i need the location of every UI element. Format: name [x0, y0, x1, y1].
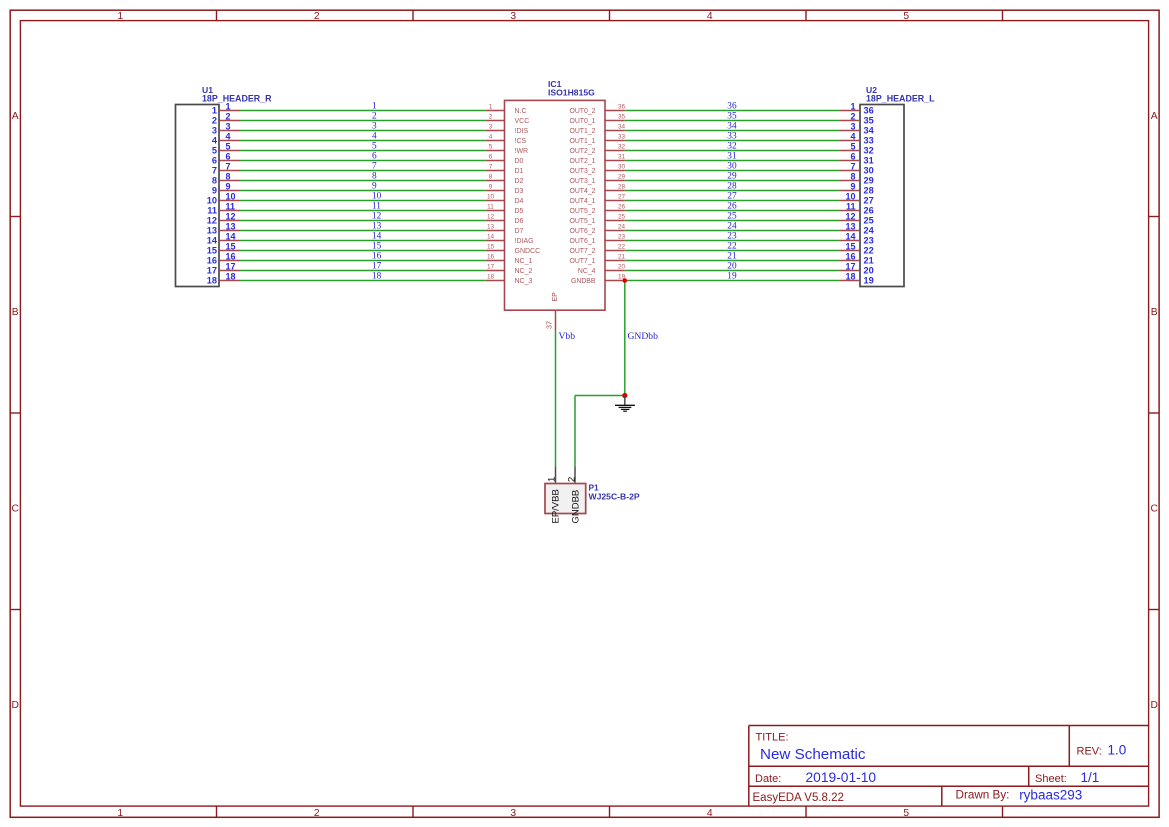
- svg-text:5: 5: [226, 141, 231, 151]
- svg-text:25: 25: [727, 212, 737, 222]
- svg-text:14: 14: [226, 231, 236, 241]
- svg-text:8: 8: [489, 174, 493, 181]
- svg-text:NC_4: NC_4: [578, 268, 596, 275]
- svg-text:5: 5: [212, 146, 217, 156]
- svg-text:8: 8: [226, 171, 231, 181]
- svg-text:EasyEDA V5.8.22: EasyEDA V5.8.22: [753, 792, 844, 804]
- svg-text:5: 5: [372, 142, 377, 152]
- svg-text:1: 1: [117, 11, 123, 22]
- svg-text:OUT2_2: OUT2_2: [569, 148, 595, 155]
- svg-text:37: 37: [545, 321, 554, 329]
- svg-text:!DIAG: !DIAG: [515, 238, 534, 245]
- svg-text:D7: D7: [515, 228, 524, 235]
- svg-text:9: 9: [372, 182, 377, 192]
- svg-text:REV:: REV:: [1077, 745, 1102, 757]
- svg-text:22: 22: [727, 242, 737, 252]
- svg-text:28: 28: [618, 184, 626, 191]
- svg-text:17: 17: [372, 262, 382, 272]
- svg-text:27: 27: [727, 192, 737, 202]
- svg-text:4: 4: [212, 136, 218, 146]
- svg-text:2: 2: [567, 477, 578, 482]
- svg-text:7: 7: [226, 161, 231, 171]
- svg-text:3: 3: [510, 11, 516, 22]
- svg-text:14: 14: [487, 234, 495, 241]
- svg-text:rybaas293: rybaas293: [1019, 788, 1082, 803]
- svg-text:21: 21: [727, 252, 737, 262]
- svg-text:D: D: [11, 700, 18, 711]
- svg-text:21: 21: [618, 254, 626, 261]
- svg-text:29: 29: [618, 174, 626, 181]
- svg-text:3: 3: [212, 126, 217, 136]
- svg-text:18: 18: [845, 271, 855, 281]
- svg-text:24: 24: [864, 226, 875, 236]
- svg-text:17: 17: [207, 266, 217, 276]
- svg-text:4: 4: [707, 11, 713, 22]
- svg-text:33: 33: [864, 136, 874, 146]
- svg-text:10: 10: [226, 191, 236, 201]
- svg-text:9: 9: [212, 186, 217, 196]
- svg-text:1: 1: [546, 477, 557, 482]
- svg-text:10: 10: [487, 194, 495, 201]
- svg-text:35: 35: [864, 116, 874, 126]
- svg-text:15: 15: [372, 242, 382, 252]
- svg-text:ISO1H815G: ISO1H815G: [548, 87, 595, 97]
- svg-text:OUT4_1: OUT4_1: [569, 198, 595, 205]
- svg-text:!WR: !WR: [515, 148, 529, 155]
- svg-text:31: 31: [864, 156, 874, 166]
- svg-text:6: 6: [850, 151, 855, 161]
- svg-text:5: 5: [903, 11, 909, 22]
- svg-text:1/1: 1/1: [1081, 770, 1100, 785]
- svg-text:D0: D0: [515, 158, 524, 165]
- svg-text:OUT5_1: OUT5_1: [569, 218, 595, 225]
- svg-text:1: 1: [489, 104, 493, 111]
- svg-text:26: 26: [864, 206, 874, 216]
- svg-text:29: 29: [727, 172, 737, 182]
- svg-text:17: 17: [487, 264, 495, 271]
- svg-text:2: 2: [850, 111, 855, 121]
- svg-text:19: 19: [864, 276, 874, 286]
- svg-text:30: 30: [618, 164, 626, 171]
- svg-text:4: 4: [489, 134, 493, 141]
- svg-text:32: 32: [618, 144, 626, 151]
- svg-text:7: 7: [212, 166, 217, 176]
- svg-text:OUT2_1: OUT2_1: [569, 158, 595, 165]
- svg-text:VCC: VCC: [515, 118, 530, 125]
- svg-text:OUT7_2: OUT7_2: [569, 248, 595, 255]
- svg-text:EP: EP: [552, 292, 559, 302]
- svg-text:2: 2: [226, 111, 231, 121]
- svg-text:12: 12: [207, 216, 217, 226]
- svg-text:OUT3_1: OUT3_1: [569, 178, 595, 185]
- svg-text:2: 2: [372, 112, 377, 122]
- svg-text:24: 24: [618, 224, 626, 231]
- svg-text:26: 26: [727, 202, 737, 212]
- svg-text:B: B: [1151, 307, 1158, 318]
- svg-text:33: 33: [618, 134, 626, 141]
- svg-text:1: 1: [212, 106, 217, 116]
- svg-text:16: 16: [845, 251, 855, 261]
- svg-text:TITLE:: TITLE:: [756, 732, 789, 744]
- svg-text:11: 11: [846, 201, 856, 211]
- svg-text:2: 2: [489, 114, 493, 121]
- svg-text:6: 6: [226, 151, 231, 161]
- svg-text:16: 16: [226, 251, 236, 261]
- svg-text:OUT0_2: OUT0_2: [569, 108, 595, 115]
- svg-text:2: 2: [212, 116, 217, 126]
- svg-text:GNDbb: GNDbb: [628, 331, 659, 342]
- svg-text:13: 13: [226, 221, 236, 231]
- svg-text:9: 9: [226, 181, 231, 191]
- svg-text:OUT3_2: OUT3_2: [569, 168, 595, 175]
- svg-text:11: 11: [207, 206, 217, 216]
- svg-text:D6: D6: [515, 218, 524, 225]
- svg-text:18: 18: [226, 271, 236, 281]
- svg-text:14: 14: [845, 231, 855, 241]
- svg-text:GNDCC: GNDCC: [515, 248, 541, 255]
- svg-text:!DIS: !DIS: [515, 128, 529, 135]
- svg-text:New Schematic: New Schematic: [760, 746, 866, 763]
- svg-text:10: 10: [207, 196, 217, 206]
- svg-text:OUT0_1: OUT0_1: [569, 118, 595, 125]
- svg-text:1: 1: [850, 101, 855, 111]
- svg-text:10: 10: [372, 192, 382, 202]
- svg-text:12: 12: [226, 211, 236, 221]
- svg-text:18: 18: [207, 276, 217, 286]
- svg-text:1.0: 1.0: [1108, 742, 1127, 757]
- svg-text:5: 5: [850, 141, 855, 151]
- svg-text:27: 27: [618, 194, 626, 201]
- svg-text:28: 28: [727, 182, 737, 192]
- svg-text:11: 11: [372, 202, 381, 212]
- svg-text:14: 14: [372, 232, 382, 242]
- svg-text:33: 33: [727, 132, 737, 142]
- svg-text:36: 36: [618, 104, 626, 111]
- svg-text:36: 36: [864, 106, 874, 116]
- svg-text:29: 29: [864, 176, 874, 186]
- svg-text:OUT6_1: OUT6_1: [569, 238, 595, 245]
- svg-text:10: 10: [845, 191, 855, 201]
- svg-text:22: 22: [864, 246, 874, 256]
- svg-text:35: 35: [727, 112, 737, 122]
- svg-text:D4: D4: [515, 198, 524, 205]
- svg-text:5: 5: [489, 144, 493, 151]
- svg-text:WJ25C-B-2P: WJ25C-B-2P: [589, 492, 640, 502]
- svg-text:D: D: [1150, 700, 1157, 711]
- svg-text:D3: D3: [515, 188, 524, 195]
- svg-text:2019-01-10: 2019-01-10: [806, 770, 877, 785]
- svg-text:15: 15: [487, 244, 495, 251]
- svg-text:6: 6: [372, 152, 377, 162]
- svg-text:8: 8: [212, 176, 217, 186]
- svg-text:13: 13: [487, 224, 495, 231]
- svg-text:5: 5: [903, 808, 909, 819]
- svg-text:34: 34: [864, 126, 875, 136]
- svg-text:15: 15: [845, 241, 855, 251]
- svg-text:23: 23: [618, 234, 626, 241]
- svg-text:19: 19: [727, 272, 737, 282]
- svg-text:3: 3: [372, 122, 377, 132]
- svg-text:16: 16: [207, 256, 217, 266]
- svg-text:34: 34: [618, 124, 626, 131]
- svg-text:4: 4: [226, 131, 231, 141]
- svg-text:32: 32: [727, 142, 737, 152]
- svg-text:14: 14: [207, 236, 218, 246]
- svg-text:13: 13: [207, 226, 217, 236]
- svg-text:!CS: !CS: [515, 138, 527, 145]
- svg-text:OUT1_1: OUT1_1: [569, 138, 595, 145]
- svg-text:18P_HEADER_L: 18P_HEADER_L: [866, 94, 935, 104]
- svg-text:3: 3: [489, 124, 493, 131]
- svg-text:NC_2: NC_2: [515, 268, 533, 275]
- svg-text:12: 12: [372, 212, 382, 222]
- svg-text:23: 23: [727, 232, 737, 242]
- svg-text:11: 11: [226, 201, 236, 211]
- svg-text:B: B: [12, 307, 19, 318]
- svg-text:30: 30: [727, 162, 737, 172]
- svg-text:7: 7: [372, 162, 377, 172]
- svg-text:2: 2: [314, 808, 320, 819]
- svg-text:Vbb: Vbb: [559, 331, 576, 342]
- svg-text:OUT7_1: OUT7_1: [569, 258, 595, 265]
- svg-text:OUT4_2: OUT4_2: [569, 188, 595, 195]
- svg-text:D1: D1: [515, 168, 524, 175]
- svg-text:A: A: [1151, 111, 1158, 122]
- svg-text:GNDBB: GNDBB: [571, 278, 596, 285]
- svg-text:8: 8: [850, 171, 855, 181]
- svg-text:18: 18: [372, 272, 382, 282]
- svg-text:8: 8: [372, 172, 377, 182]
- svg-text:13: 13: [845, 221, 855, 231]
- svg-text:21: 21: [864, 256, 874, 266]
- svg-text:NC_1: NC_1: [515, 258, 533, 265]
- svg-text:13: 13: [372, 222, 382, 232]
- svg-text:15: 15: [207, 246, 217, 256]
- svg-text:35: 35: [618, 114, 626, 121]
- svg-text:30: 30: [864, 166, 874, 176]
- svg-text:28: 28: [864, 186, 874, 196]
- svg-text:D2: D2: [515, 178, 524, 185]
- svg-text:9: 9: [489, 184, 493, 191]
- svg-text:18P_HEADER_R: 18P_HEADER_R: [202, 94, 272, 104]
- svg-text:3: 3: [226, 121, 231, 131]
- svg-text:32: 32: [864, 146, 874, 156]
- svg-text:23: 23: [864, 236, 874, 246]
- svg-text:31: 31: [618, 154, 626, 161]
- svg-text:C: C: [11, 504, 19, 515]
- svg-text:N.C: N.C: [515, 108, 527, 115]
- svg-text:9: 9: [850, 181, 855, 191]
- svg-text:1: 1: [117, 808, 123, 819]
- svg-text:NC_3: NC_3: [515, 278, 533, 285]
- svg-text:15: 15: [226, 241, 236, 251]
- svg-text:OUT1_2: OUT1_2: [569, 128, 595, 135]
- svg-text:16: 16: [487, 254, 495, 261]
- svg-text:18: 18: [487, 274, 495, 281]
- svg-text:11: 11: [487, 204, 494, 211]
- svg-text:17: 17: [226, 261, 236, 271]
- svg-text:1: 1: [372, 102, 377, 112]
- svg-text:3: 3: [850, 121, 855, 131]
- svg-text:31: 31: [727, 152, 737, 162]
- svg-text:24: 24: [727, 222, 737, 232]
- svg-text:OUT5_2: OUT5_2: [569, 208, 595, 215]
- svg-text:Date:: Date:: [755, 773, 781, 785]
- svg-text:36: 36: [727, 102, 737, 112]
- svg-text:2: 2: [314, 11, 320, 22]
- svg-text:A: A: [12, 111, 19, 122]
- svg-text:20: 20: [864, 266, 874, 276]
- svg-text:7: 7: [489, 164, 493, 171]
- svg-text:17: 17: [845, 261, 855, 271]
- svg-text:D5: D5: [515, 208, 524, 215]
- svg-text:6: 6: [212, 156, 217, 166]
- svg-text:EP/VBB: EP/VBB: [551, 489, 562, 523]
- svg-text:12: 12: [845, 211, 855, 221]
- svg-text:26: 26: [618, 204, 626, 211]
- svg-text:6: 6: [489, 154, 493, 161]
- svg-text:1: 1: [226, 101, 231, 111]
- svg-text:20: 20: [727, 262, 737, 272]
- svg-text:3: 3: [510, 808, 516, 819]
- svg-text:22: 22: [618, 244, 626, 251]
- svg-text:Drawn By:: Drawn By:: [956, 788, 1010, 801]
- svg-text:OUT6_2: OUT6_2: [569, 228, 595, 235]
- svg-text:Sheet:: Sheet:: [1035, 773, 1067, 785]
- svg-text:34: 34: [727, 122, 737, 132]
- svg-text:7: 7: [850, 161, 855, 171]
- svg-text:20: 20: [618, 264, 626, 271]
- svg-text:27: 27: [864, 196, 874, 206]
- svg-text:25: 25: [864, 216, 874, 226]
- svg-text:4: 4: [372, 132, 377, 142]
- svg-text:12: 12: [487, 214, 495, 221]
- svg-text:4: 4: [707, 808, 713, 819]
- svg-text:GNDBB: GNDBB: [571, 490, 582, 524]
- svg-text:C: C: [1150, 504, 1158, 515]
- svg-text:4: 4: [850, 131, 855, 141]
- svg-text:25: 25: [618, 214, 626, 221]
- svg-text:16: 16: [372, 252, 382, 262]
